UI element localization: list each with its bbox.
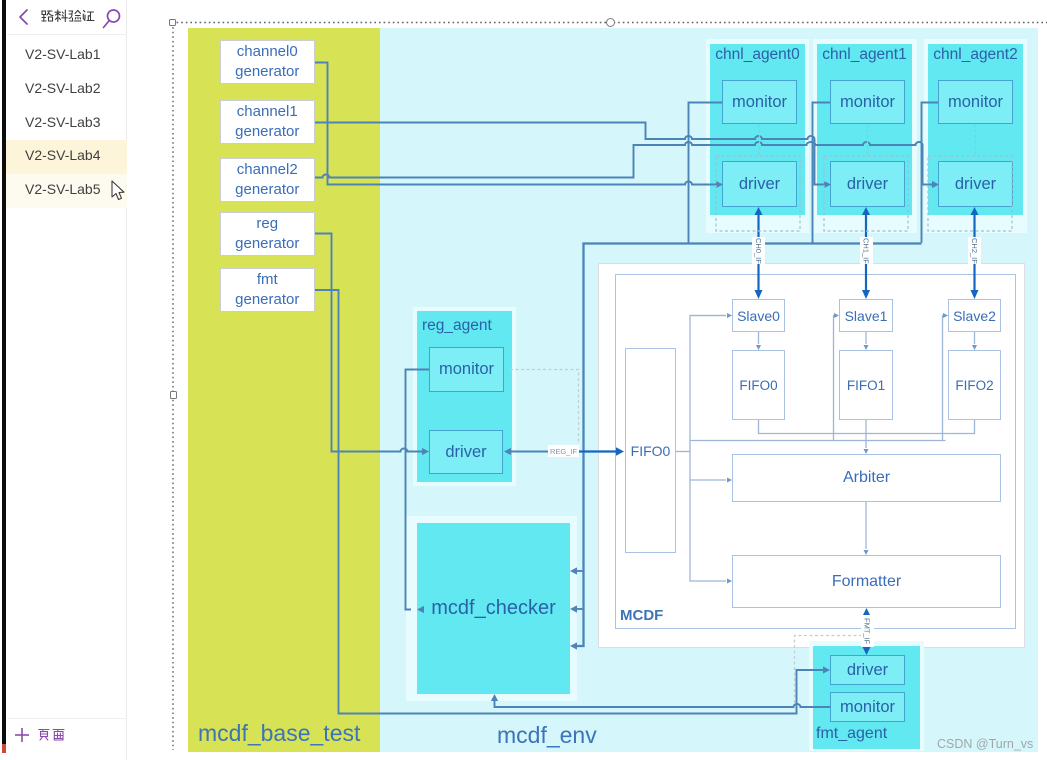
fmt_agent monitor box — [830, 692, 905, 722]
fmt generator box — [220, 268, 316, 312]
sidebar item V2-SV-Lab2 — [25, 80, 101, 96]
selection handle left-middle — [170, 391, 177, 399]
dashed vif path chnl_agent1 — [867, 124, 869, 156]
wire channel2 generator to chnl_agent2 driver — [315, 142, 932, 185]
sidebar back chevron — [17, 8, 31, 26]
CH0_IF label — [752, 237, 765, 264]
sidebar panel — [0, 0, 127, 760]
FMT_IF interface arrow — [865, 613, 867, 650]
sidebar header underline — [7, 34, 127, 35]
sidebar item V2-SV-Lab4 — [25, 147, 101, 163]
sidebar item V2-SV-Lab3 — [25, 114, 101, 130]
channel1 generator box — [220, 100, 316, 144]
wire stub into mcdf_checker at y646 — [570, 642, 577, 649]
mouse cursor — [108, 180, 128, 204]
REG_IF label — [548, 445, 579, 457]
wire channel0 generator to chnl_agent0 driver — [315, 63, 716, 185]
FIFO0 box — [732, 350, 785, 420]
sidebar item V2-SV-Lab5 highlight — [6, 174, 127, 208]
CH1_IF interface arrow — [865, 213, 867, 291]
add page label 页面 (drawn strokes) — [38, 728, 66, 742]
reg_agent monitor box — [429, 347, 504, 392]
MCDF FIFO outputs bus — [759, 420, 975, 448]
selection dotted top border — [172, 22, 1047, 24]
halo behind reg_agent — [413, 307, 516, 486]
fmt_agent box — [813, 646, 920, 749]
Slave1 to FIFO1 stub — [865, 332, 867, 344]
CH2_IF label — [968, 237, 981, 264]
outer white panel around MCDF — [598, 263, 1025, 648]
CH0_IF interface arrow — [757, 213, 759, 291]
mcdf_base_test olive region — [188, 28, 380, 752]
chnl_agent1 monitor box — [830, 80, 905, 124]
watermark — [937, 737, 1033, 751]
MCDF internal horizontal bus — [690, 440, 946, 442]
halo behind fmt_agent — [809, 641, 924, 751]
FMT_IF label — [861, 615, 874, 647]
wire chnl_agent0 monitor to bus — [689, 103, 723, 243]
chnl_agent0 driver box — [722, 161, 797, 207]
fmt_agent driver box — [830, 655, 905, 685]
sidebar bottom separator — [7, 718, 127, 719]
sidebar title 路科验证 (drawn strokes) — [41, 9, 95, 24]
chnl_agent2 monitor box — [938, 80, 1013, 124]
chnl_agent1 box — [817, 44, 912, 215]
chnl_agent2 driver box — [938, 161, 1013, 207]
sidebar search icon — [99, 6, 123, 30]
halo behind chnl_agent2 — [924, 39, 1027, 233]
dashed vif path chnl_agent0 — [759, 124, 761, 156]
wire chnl_agent1 monitor to bus — [813, 103, 831, 243]
mcdf_env label — [497, 722, 597, 749]
wire chnl_agent2 monitor to bus — [922, 103, 939, 243]
tall FIFO0 box — [625, 348, 676, 553]
wire reg generator to reg_agent driver — [315, 234, 423, 452]
sidebar item V2-SV-Lab5 — [25, 181, 101, 197]
selection dotted left border — [172, 23, 174, 751]
Slave2 box — [948, 299, 1001, 332]
wire reg_agent monitor to mcdf_checker — [406, 370, 430, 610]
selection handle top-middle — [606, 18, 615, 27]
wire channel1 generator to chnl_agent1 driver — [315, 123, 824, 185]
Arbiter to Formatter wire — [865, 502, 867, 549]
selection handle top-left — [169, 19, 176, 26]
chnl_agent1 driver box — [830, 161, 905, 207]
MCDF internal feed to Slave0 — [690, 315, 726, 317]
dashed vif path reg_agent — [510, 370, 579, 445]
halo behind chnl_agent0 — [706, 39, 809, 233]
wire monitor bus to mcdf_checker — [577, 244, 922, 647]
Slave0 to FIFO0 stub — [758, 332, 760, 344]
add page button — [14, 727, 30, 743]
reg_agent driver box — [429, 430, 503, 474]
wire stub into mcdf_checker at y609 — [577, 608, 584, 610]
FIFO2 box — [948, 350, 1001, 420]
MCDF internal tie FIFO0 to bus — [676, 451, 690, 453]
channel0 generator box — [220, 40, 316, 84]
mcdf_checker box — [417, 523, 570, 694]
wire stub into mcdf_checker at y571 — [577, 570, 584, 572]
MCDF block — [615, 274, 1016, 629]
CH2_IF interface arrow — [973, 213, 975, 291]
FIFO1 box — [839, 350, 893, 420]
reg generator box — [220, 212, 316, 256]
sidebar item V2-SV-Lab1 — [25, 46, 101, 62]
MCDF internal bus vertical — [690, 316, 726, 582]
MCDF internal feed to Slave2 — [942, 316, 945, 441]
wire fmt generator to fmt_agent driver — [315, 290, 824, 714]
CH1_IF label — [860, 237, 873, 264]
sidebar left black bar — [2, 0, 6, 744]
Arbiter box — [732, 454, 1001, 502]
sidebar red tick — [2, 744, 6, 753]
channel2 generator box — [220, 158, 316, 202]
halo behind chnl_agent1 — [813, 39, 917, 233]
Slave1 box — [839, 299, 893, 332]
Slave2 to FIFO2 stub — [974, 332, 976, 344]
dashed vif path chnl_agent2 — [975, 124, 977, 156]
wire REG_IF reg_agent driver to FIFO0 — [510, 451, 550, 453]
mcdf_env cyan region — [380, 28, 1038, 752]
chnl_agent2 box — [928, 44, 1023, 215]
Formatter box — [732, 555, 1001, 608]
halo behind mcdf_checker — [406, 516, 577, 701]
reg_agent box — [417, 311, 512, 482]
wire fmt_agent monitor to mcdf_checker — [495, 700, 831, 707]
Slave0 box — [732, 299, 785, 332]
MCDF label — [620, 607, 663, 624]
mcdf_base_test label — [198, 720, 360, 747]
chnl_agent0 box — [710, 44, 805, 215]
MCDF internal feed to Slave1 — [833, 316, 836, 441]
chnl_agent0 monitor box — [722, 80, 797, 124]
dashed vif path fmt_agent — [795, 636, 863, 706]
sidebar item V2-SV-Lab4 highlight — [6, 140, 127, 174]
MCDF internal stub to Arbiter — [690, 479, 726, 481]
